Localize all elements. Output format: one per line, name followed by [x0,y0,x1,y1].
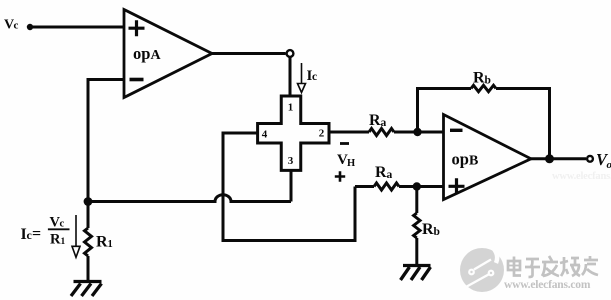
svg-text:=: = [32,226,41,243]
svg-text:R: R [473,70,485,87]
svg-text:b: b [485,75,491,87]
svg-text:3: 3 [288,155,294,167]
svg-text:a: a [381,117,387,129]
svg-text:R: R [50,232,61,248]
svg-text:R: R [375,164,387,181]
svg-text:op: op [133,44,150,63]
svg-text:b: b [434,226,440,238]
svg-text:c: c [312,71,317,83]
svg-text:www.elecfans.co: www.elecfans.co [552,171,611,182]
svg-text:c: c [14,20,19,32]
svg-text:www.elecfans.com: www.elecfans.com [504,279,591,291]
svg-text:1: 1 [61,237,66,247]
svg-text:op: op [452,150,469,169]
svg-text:R: R [422,221,434,238]
svg-text:c: c [60,219,65,230]
svg-text:a: a [387,169,393,181]
svg-text:R: R [96,234,108,251]
svg-text:1: 1 [288,102,294,114]
svg-text:B: B [469,154,478,169]
svg-text:R: R [369,112,381,129]
svg-text:4: 4 [262,129,268,141]
svg-text:A: A [151,48,162,63]
svg-text:o: o [607,159,611,171]
svg-text:1: 1 [108,239,113,250]
svg-text:2: 2 [319,128,325,140]
svg-text:H: H [347,158,355,169]
